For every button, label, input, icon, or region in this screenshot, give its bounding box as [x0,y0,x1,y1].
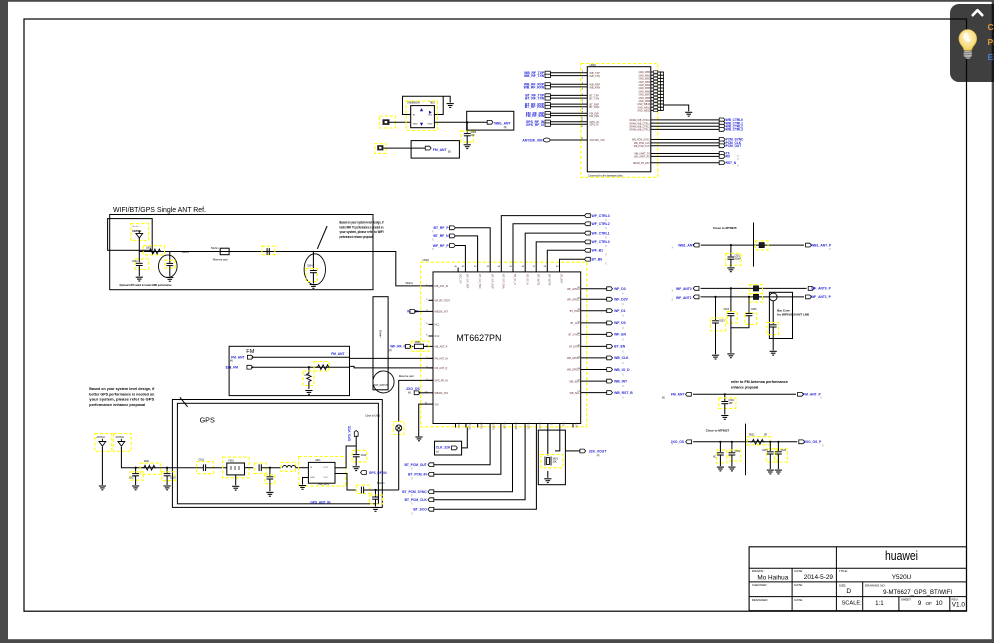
wire BT_B0 [560,259,585,267]
pin stub left 2 [429,299,434,301]
svg-text:huawei: huawei [885,549,918,563]
svg-text:32K: 32K [553,462,558,464]
ANT Ref box [110,215,373,290]
pin stub bottom 6 [512,424,514,428]
svg-text:GND_WB3: GND_WB3 [639,82,651,84]
wire XI into crystal [547,428,549,456]
wire bus to ground [664,105,689,111]
svg-text:Close to MT6625: Close to MT6625 [713,226,737,230]
svg-text:x: x [622,373,624,377]
svg-text:WF_D0: WF_D0 [614,321,626,325]
svg-text:2XO_OS: 2XO_OS [406,387,420,391]
svg-text:GPS: GPS [200,416,215,425]
svg-text:NC: NC [713,457,717,459]
wire R601 to pin [424,345,429,347]
ground C613 [266,492,273,496]
resistor R611 [140,463,161,474]
svg-text:x: x [672,289,674,293]
shunt capacitor C631 [724,394,726,401]
wire BT_RF_P [455,228,490,268]
svg-text:BT_SYNC: BT_SYNC [568,334,579,337]
inductor L611 [281,462,296,471]
svg-text:refer to FM Antenna performanc: refer to FM Antenna performance [731,380,788,384]
svg-text:WB_RF_RXN: WB_RF_RXN [524,85,545,89]
stub WF_ANT1 right [806,295,812,299]
svg-text:WF_ANT0_P: WF_ANT0_P [811,287,831,291]
stub WF_ANT0 [693,287,699,291]
shunt capacitor C623 [715,297,717,320]
svg-text:C624: C624 [724,309,730,311]
svg-text:9: 9 [918,600,922,607]
svg-text:WB1_ANT: WB1_ANT [678,244,694,248]
svg-text:GPS_RF_IN: GPS_RF_IN [369,471,387,475]
svg-text:[x]: [x] [436,451,439,454]
wire SAW ground [235,475,237,485]
ferrite core circle [769,293,777,301]
svg-text:x: x [411,476,413,480]
shunt capacitor C641 [719,442,721,452]
wire right WF_D2V [581,298,607,300]
stub WF_RF_0 [405,345,411,349]
inductor L601 [143,246,164,255]
crystal block box [538,430,565,485]
svg-text:WB_UART_TX: WB_UART_TX [634,153,650,156]
svg-text:GPS_IX: GPS_IX [590,124,599,127]
wire LNA vcc out [335,474,357,491]
svg-text:C642: C642 [735,451,741,453]
stub GPS_VCC [354,430,358,436]
svg-text:DATE:: DATE: [794,569,803,573]
svg-text:WB_ANT_P: WB_ANT_P [435,346,448,349]
stub FM_ANT r3 [686,392,692,396]
title block outer [749,547,966,611]
wire WF_ANT0 row [701,287,807,289]
wire right WF_D0 [581,322,607,324]
svg-text:x: x [605,261,607,265]
wire WF_RF_P [455,246,465,268]
ground ANT611 [99,486,106,490]
pin stub left 11 [429,403,434,405]
capacitor C625 [745,313,757,325]
svg-text:enhance proposal: enhance proposal [731,385,758,389]
svg-text:U603: U603 [423,258,430,262]
capacitor C624 [727,312,737,324]
ground C618 [164,486,171,490]
GPS LNA U611 [299,457,346,487]
net label WF_CTRL3 top-right [585,214,591,218]
ground C622 [770,351,777,355]
capacitor C622 [772,301,774,324]
node junction C605 [466,121,468,123]
svg-text:R601: R601 [415,342,421,344]
svg-text:x: x [432,238,434,242]
wire 32K_FM [251,366,349,368]
svg-text:GND_WB9: GND_WB9 [639,101,651,103]
shunt capacitor C644 [777,442,779,451]
GPS outer box [172,400,382,508]
wire C617 ground [135,476,137,485]
junction C621 [730,244,732,246]
svg-text:DRAM_BT_RST: DRAM_BT_RST [633,162,650,165]
wire C613 ground [269,479,271,491]
junction C641 [719,441,721,443]
antenna pad J602 [375,144,386,154]
wire WF_ANT1 row [701,296,804,298]
svg-text:U602: U602 [590,63,597,67]
wire LNA ground [303,478,309,485]
svg-text:x: x [605,226,607,230]
pin stub left 4 [429,323,434,325]
wire crystal out [565,450,580,452]
svg-text:DESIGNED:: DESIGNED: [752,598,769,602]
vertical trace line 2 [745,424,747,476]
wire pad to GPS out [398,431,400,490]
wire BT_PCM_SYNC [434,428,513,492]
svg-text:FM_ANT: FM_ANT [433,148,448,152]
wire C623 ground [715,323,717,354]
wire caps pair [730,288,732,311]
svg-text:x: x [622,292,624,296]
svg-text:WF_GPIO1: WF_GPIO1 [567,298,580,301]
svg-text:50ohm: 50ohm [406,282,414,285]
svg-text:FM_ANT_P: FM_ANT_P [803,393,821,397]
corner slash [180,397,188,407]
svg-text:WB_TXN: WB_TXN [590,75,601,78]
wire RTC box [462,428,468,448]
svg-text:DRAM_WB_CTRL2: DRAM_WB_CTRL2 [630,125,651,128]
svg-text:C604: C604 [307,266,313,268]
svg-text:BT_EN: BT_EN [614,345,626,349]
wire WF_CTRL2 [513,224,584,268]
net box WB1_ANT [467,111,514,130]
svg-text:x: x [622,361,624,365]
ground C603 [166,277,173,281]
wire C603 to ground [169,266,171,277]
junction C631 [724,393,726,395]
capacitor C614 [352,450,367,462]
svg-text:DRAM_WB_CTRL0: DRAM_WB_CTRL0 [630,119,651,122]
svg-text:x: x [672,442,674,446]
stub 32K_FM [247,365,253,369]
stub BT_PCM_IN [428,472,434,476]
pin stub bottom 4 [489,424,491,428]
stub ANT601 right [806,243,812,247]
svg-text:WF_RF_TXP: WF_RF_TXP [466,274,469,289]
svg-text:for WIFI/GPS/ANT LNB: for WIFI/GPS/ANT LNB [777,313,810,317]
svg-text:WF_B1: WF_B1 [592,249,604,253]
pin stub bottom 11 [572,424,574,428]
pin stub left 8 [429,367,434,369]
ground C631 [721,416,728,420]
junction C616 [374,489,376,491]
ground C641 [717,467,724,471]
svg-text:MT6627PN: MT6627PN [456,333,501,343]
svg-text:FM: FM [246,349,254,355]
wire right WF_D3 [581,288,607,290]
svg-text:2014-5-29: 2014-5-29 [804,574,834,581]
stub FM right [798,392,804,396]
svg-text:[x]: [x] [597,454,600,457]
vertical trace line [753,223,755,267]
svg-text:OUT: OUT [428,114,433,116]
svg-text:FM_ANT_IN: FM_ANT_IN [435,358,449,361]
wire loop balun left [403,96,451,114]
antenna ANT611 [95,434,112,452]
svg-text:32K_XOUT: 32K_XOUT [589,449,607,453]
wire L611 to LNA [296,467,309,469]
pointer line [317,226,327,249]
MT6627PN body [433,272,581,424]
svg-text:GND_WB1: GND_WB1 [639,75,651,77]
connector U602 body [587,67,651,172]
pair stub WB_RF_TXP [545,71,550,74]
wire R602 lower [308,382,310,389]
svg-text:R611: R611 [144,461,150,463]
wire right WF_EN [581,333,607,335]
wire BT_PCM_IN [434,428,501,475]
svg-text:x: x [672,246,674,250]
svg-text:ANT32K_XIN: ANT32K_XIN [522,138,543,142]
pin stub top 7 [524,268,526,272]
svg-text:BT_B0: BT_B0 [592,258,603,262]
svg-text:AVSS: AVSS [479,423,482,430]
svg-text:GND_WB8: GND_WB8 [639,98,651,100]
svg-text:DRAWN:: DRAWN: [752,569,764,573]
net label BT_B0 top-right [585,257,591,261]
wire GPS pad chain [399,380,433,421]
wire WF_RF_0 to R601 [410,345,414,347]
svg-text:XO: XO [561,423,564,427]
svg-text:D: D [846,588,851,595]
svg-text:C631: C631 [729,400,735,402]
svg-text:CLK_32K: CLK_32K [436,446,451,450]
wire pair FM_RF_INP to U602 [550,112,587,114]
svg-text:x: x [820,396,822,400]
svg-text:BT_TXN: BT_TXN [590,98,600,101]
GPS inner box [177,403,378,504]
svg-text:x: x [605,253,607,257]
wire stub down [355,436,357,454]
antenna pad J601 [380,116,396,128]
svg-text:WB1_ANT: WB1_ANT [494,122,511,126]
svg-text:WF_ANT1: WF_ANT1 [676,296,692,300]
svg-text:PCMS: PCMS [514,423,517,430]
svg-text:T601: T601 [430,103,436,105]
wire pair ground [730,328,732,353]
svg-text:GPS_RF_IN: GPS_RF_IN [435,380,449,383]
svg-text:1pF: 1pF [471,134,476,137]
svg-text:x: x [737,157,739,161]
svg-text:SCALE:: SCALE: [842,601,863,607]
pin stub left 7 [429,357,434,359]
svg-text:C644: C644 [781,450,787,452]
stub 2XO right [799,440,805,444]
svg-text:9-MT6627_GPS_BT/WIFI: 9-MT6627_GPS_BT/WIFI [883,589,952,596]
svg-text:OF: OF [926,601,933,606]
svg-text:x: x [411,511,413,515]
svg-text:GND: GND [457,423,460,429]
bead FB602 [750,285,763,294]
svg-text:GPS_VCC: GPS_VCC [348,425,352,441]
shunt capacitor C602 [138,252,140,263]
net label WF_CTRL0 top-right [585,240,591,244]
svg-text:GND_WB0: GND_WB0 [639,72,651,74]
svg-text:x: x [622,302,624,306]
svg-text:x: x [622,326,624,330]
svg-text:performance enhance proposal: performance enhance proposal [340,235,373,239]
svg-text:WF_D3: WF_D3 [614,287,626,291]
svg-text:WB_RF_TXN: WB_RF_TXN [524,74,545,78]
svg-text:F601: F601 [229,460,235,463]
junction C642 [731,441,733,443]
pin stub left 5 [429,335,434,337]
svg-text:10: 10 [936,600,944,607]
svg-text:WF_ANT1: WF_ANT1 [536,274,539,286]
svg-text:x: x [622,396,624,400]
stub BT_PCM_OUT [428,463,434,467]
stub 2XO_OS [414,391,420,395]
svg-text:GND_WB4: GND_WB4 [639,85,651,87]
svg-text:GND_WB5: GND_WB5 [639,88,651,90]
svg-text:WB_GPIO2: WB_GPIO2 [567,357,580,360]
svg-text:GND: GND [413,124,418,126]
svg-text:WB_SDA: WB_SDA [569,380,580,383]
pin stub bottom 1 [455,424,457,428]
capacitor C612 series [254,463,266,473]
svg-text:1:1: 1:1 [875,600,884,607]
svg-text:BT_ANT: BT_ANT [560,274,563,284]
resistor R602 [308,367,310,373]
svg-text:BT_PCM_SYNC: BT_PCM_SYNC [402,490,427,494]
svg-text:WB_PCM_CLK: WB_PCM_CLK [634,143,650,145]
svg-text:Close to MT6627: Close to MT6627 [706,429,730,433]
svg-text:SCLK: SCLK [538,423,541,430]
wire LNA out [335,446,356,468]
svg-text:[4]: [4] [230,360,233,363]
svg-text:x: x [411,502,413,506]
ground pin11 [415,437,422,441]
wire pad J602 to FM net box [383,147,425,149]
svg-text:L601: L601 [146,247,152,250]
stub WF_ANT1 [693,295,699,299]
svg-text:your system, please refer to: your system, please refer to GPS [89,398,155,402]
svg-text:0R: 0R [764,435,767,437]
wire 2XO_OS to pin10 [418,392,428,394]
svg-text:C614: C614 [361,455,367,457]
wire C614 ground [355,457,357,466]
svg-text:C611: C611 [199,459,205,462]
svg-text:BT_RXN: BT_RXN [590,106,600,109]
svg-text:OUT: OUT [323,467,328,469]
svg-text:Based on your system-level de: Based on your system-level design, if [340,221,385,225]
svg-text:C625: C625 [751,309,757,311]
svg-text:x: x [432,247,434,251]
wire right WF_D1 [581,310,607,312]
pin stub top 8 [535,268,537,272]
wire C605 to ground [466,136,468,144]
svg-text:50ohm: 50ohm [211,247,219,250]
svg-text:x: x [411,467,413,471]
svg-text:GND: GND [310,477,315,479]
wire C621 ground [730,259,732,267]
ground R602 [305,391,312,395]
RTC net box [435,441,462,455]
svg-text:C602: C602 [132,261,138,263]
svg-text:SIZE:: SIZE: [839,583,847,587]
svg-text:WB32K_XIN: WB32K_XIN [435,392,449,395]
wire XO into crystal [555,428,560,451]
wire FM row1 to pin7 [350,357,434,359]
wire pad J601 to balun [390,121,411,123]
wire WB32K [414,310,428,312]
shunt capacitor C621 [730,245,732,256]
svg-text:performance enhance proposal: performance enhance proposal [89,403,145,407]
svg-text:Y520U: Y520U [892,574,912,581]
svg-text:WF_CTRL2: WF_CTRL2 [592,222,610,226]
svg-text:DRAWING NO:: DRAWING NO: [865,583,886,587]
capacitor C601 series [262,246,275,255]
svg-text:RTCIN: RTCIN [468,423,471,431]
svg-text:C621: C621 [735,256,741,258]
svg-text:x: x [432,229,434,233]
svg-text:32K_FM: 32K_FM [225,365,238,369]
stub WB1_ANT r1 [693,243,699,247]
net stub FM_ANT [425,146,431,150]
svg-text:C643: C643 [762,450,768,452]
pin stub bottom 7 [524,424,526,428]
svg-text:x: x [672,298,674,302]
svg-text:WB_SCL: WB_SCL [570,392,581,395]
wire pair GPS_RF_IN to U602 [550,121,587,123]
stub 2XO left [686,440,692,444]
svg-text:VIO: VIO [435,403,439,406]
MT6627PN highlight [421,262,587,427]
capacitor C615 series [356,485,370,493]
option ellipse 2 [304,254,325,285]
svg-text:GND_WB10: GND_WB10 [637,104,650,106]
svg-text:WB_PCM_OUT: WB_PCM_OUT [634,146,651,148]
svg-text:WF_RF_0: WF_RF_0 [390,345,405,349]
wire C602 to ground [138,266,140,277]
pin stub left 1 [429,285,434,287]
wire WF_CTRL1 [525,233,584,267]
svg-text:Reserve pad: Reserve pad [399,374,414,378]
svg-text:Connected to the baseband chip: Connected to the baseband chip [588,175,623,178]
svg-text:WF_RF_P: WF_RF_P [433,244,450,248]
pin stub top 10 [559,268,561,272]
svg-text:Based on your system level de: Based on your system level design, if [89,387,155,391]
pair stub BT_RF_RXP [545,103,550,106]
ground C614 [353,467,360,471]
svg-text:BT_SCO: BT_SCO [413,508,427,512]
svg-text:GND_WB12: GND_WB12 [637,111,650,113]
svg-text:WF_D2V: WF_D2V [614,298,628,302]
pair stub GPS_RF_IN [545,120,550,123]
svg-text:DATE:: DATE: [794,598,803,602]
crystal X601 [541,455,563,468]
pair stub WB_RF_RXP [545,83,550,86]
option ellipse 1 [159,255,178,278]
shunt capacitor C604 [312,252,314,270]
svg-text:GND_WB7: GND_WB7 [639,95,651,97]
svg-text:U611: U611 [315,459,321,462]
net label GPS_RF_IN inner [360,471,366,475]
shunt capacitor C616 [375,490,377,497]
svg-text:x: x [737,163,739,167]
svg-text:WB_IO_D: WB_IO_D [614,368,630,372]
wire WF_CTRL0 [536,242,584,268]
popup text C P E [988,20,994,65]
